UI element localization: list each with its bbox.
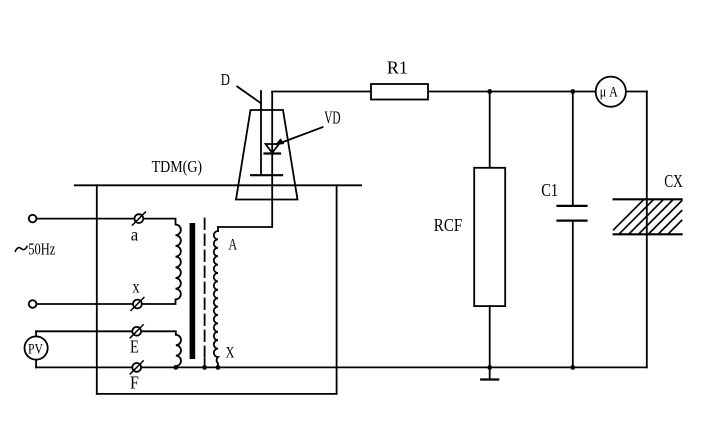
wire secondary top curve xyxy=(217,227,219,231)
primary winding a-x xyxy=(142,219,181,304)
svg-text:A: A xyxy=(228,236,237,253)
wire RCF branch bottom xyxy=(489,306,491,367)
winding E-F (excitation) xyxy=(141,331,181,367)
svg-text:X: X xyxy=(226,345,235,362)
wire bottom bus xyxy=(36,366,647,368)
svg-text:a: a xyxy=(131,225,139,245)
svg-text:F: F xyxy=(130,373,139,393)
wire right branch vertical (uA to CX to bottom bus) xyxy=(646,92,648,368)
secondary winding A-X xyxy=(214,231,218,367)
node screen at bus xyxy=(202,365,207,370)
svg-text:μ A: μ A xyxy=(600,84,618,100)
svg-text:C1: C1 xyxy=(541,180,558,200)
electrostatic screen (dashed) xyxy=(204,219,206,360)
node junction of bus and C1 branch xyxy=(570,89,575,94)
node winding X bottom at bus xyxy=(216,365,221,370)
bushing (trapezoid) xyxy=(236,110,298,200)
resistor R1 xyxy=(371,58,428,100)
resistor RCF xyxy=(434,168,505,306)
wire PV top to terminal E xyxy=(36,330,132,332)
voltmeter PV xyxy=(24,331,47,367)
terminal E (circle slash) xyxy=(130,325,143,357)
svg-text:RCF: RCF xyxy=(434,215,462,235)
terminal F (circle slash) xyxy=(130,361,143,393)
electrode plate bar inside bushing xyxy=(251,174,282,176)
node junction of R1 bus and RCF branch xyxy=(487,89,492,94)
svg-text:R1: R1 xyxy=(387,58,408,78)
svg-text:CX: CX xyxy=(664,171,683,191)
svg-text:VD: VD xyxy=(324,108,340,128)
capacitor CX test object (hatched) xyxy=(614,171,683,234)
wire main HV lead (top bus corner down through bushing to winding A) xyxy=(218,92,272,228)
terminal a (circle slash) xyxy=(131,212,146,245)
svg-text:E: E xyxy=(130,336,139,356)
wire top bus middle segment (R1 to uA meter) xyxy=(428,91,647,93)
capacitor C1 xyxy=(541,92,586,368)
svg-text:PV: PV xyxy=(28,342,43,358)
terminal x (circle slash) xyxy=(131,277,144,311)
transformer tank box TDM(G) xyxy=(75,157,361,394)
label D with leader xyxy=(221,70,260,103)
node junction C1 at bottom bus xyxy=(570,365,575,370)
terminal input top circle xyxy=(29,215,37,223)
label VD with arrow leader xyxy=(275,108,341,146)
electrode D line xyxy=(260,91,262,175)
ground xyxy=(481,367,498,379)
wire input bottom to terminal x xyxy=(36,303,133,305)
terminal input bottom circle xyxy=(29,300,37,308)
svg-text:TDM(G): TDM(G) xyxy=(152,157,203,176)
svg-text:x: x xyxy=(132,277,139,297)
label ~50Hz xyxy=(15,246,27,251)
wire input top to terminal a xyxy=(36,218,134,220)
diode VD xyxy=(265,144,281,154)
ammeter uA xyxy=(596,77,626,107)
wire RCF branch top xyxy=(489,92,491,168)
transformer core bar xyxy=(190,223,196,359)
node junction RCF at bottom bus xyxy=(487,365,492,370)
wire top bus left segment (bushing tap to R1) xyxy=(272,91,371,93)
svg-text:D: D xyxy=(221,70,230,89)
node winding E bottom at bus xyxy=(173,365,178,370)
svg-text:50Hz: 50Hz xyxy=(28,240,55,259)
